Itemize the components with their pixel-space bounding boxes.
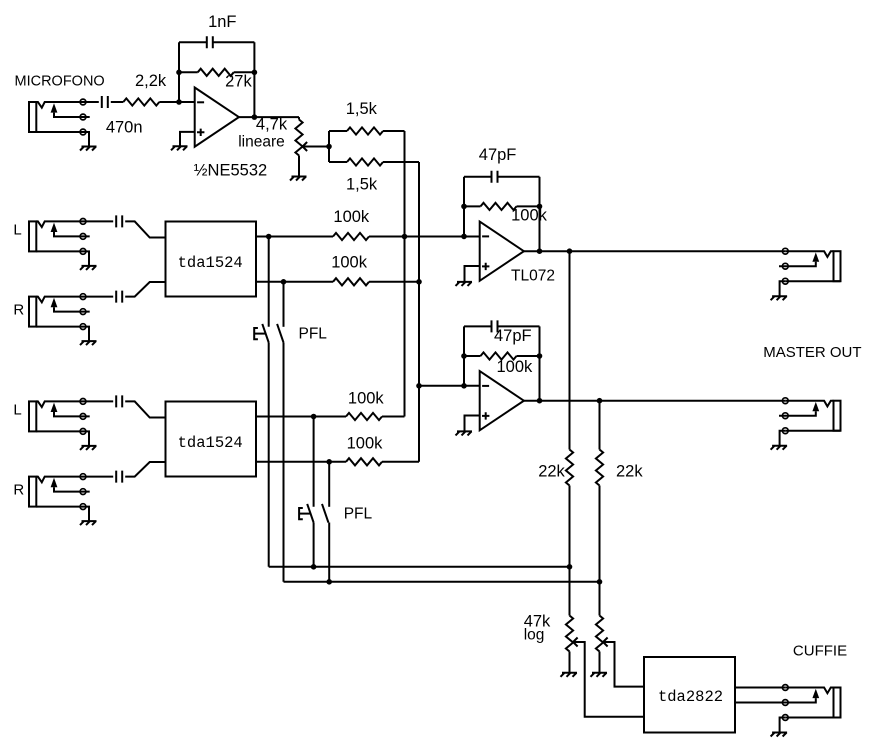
svg-text:100k: 100k xyxy=(331,253,368,271)
svg-text:100k: 100k xyxy=(511,207,548,225)
svg-text:1nF: 1nF xyxy=(208,13,236,31)
svg-text:1,5k: 1,5k xyxy=(346,176,378,194)
svg-text:100k: 100k xyxy=(348,389,385,407)
svg-text:PFL: PFL xyxy=(344,506,373,523)
svg-text:MASTER OUT: MASTER OUT xyxy=(763,344,861,361)
svg-text:2,2k: 2,2k xyxy=(135,72,167,90)
svg-text:lineare: lineare xyxy=(238,133,285,150)
svg-text:TL072: TL072 xyxy=(511,267,555,284)
svg-text:100k: 100k xyxy=(497,358,534,376)
svg-text:L: L xyxy=(13,402,21,419)
svg-text:CUFFIE: CUFFIE xyxy=(793,642,847,659)
svg-text:22k: 22k xyxy=(538,463,565,481)
svg-text:tda2822: tda2822 xyxy=(658,688,723,706)
svg-text:R: R xyxy=(13,482,24,499)
svg-text:470n: 470n xyxy=(106,119,143,137)
svg-text:tda1524: tda1524 xyxy=(178,254,243,272)
svg-text:log: log xyxy=(524,627,545,644)
svg-text:27k: 27k xyxy=(225,72,252,90)
svg-text:22k: 22k xyxy=(616,463,643,481)
svg-text:100k: 100k xyxy=(333,208,370,226)
svg-text:PFL: PFL xyxy=(299,326,328,343)
svg-text:½NE5532: ½NE5532 xyxy=(194,161,267,179)
svg-text:4,7k: 4,7k xyxy=(256,116,288,134)
svg-text:MICROFONO: MICROFONO xyxy=(15,74,105,90)
svg-text:1,5k: 1,5k xyxy=(346,100,378,118)
svg-text:47pF: 47pF xyxy=(479,146,517,164)
svg-text:47pF: 47pF xyxy=(494,327,532,345)
svg-text:100k: 100k xyxy=(347,434,384,452)
svg-text:tda1524: tda1524 xyxy=(178,434,243,452)
svg-text:L: L xyxy=(13,222,21,239)
svg-text:R: R xyxy=(13,302,24,319)
